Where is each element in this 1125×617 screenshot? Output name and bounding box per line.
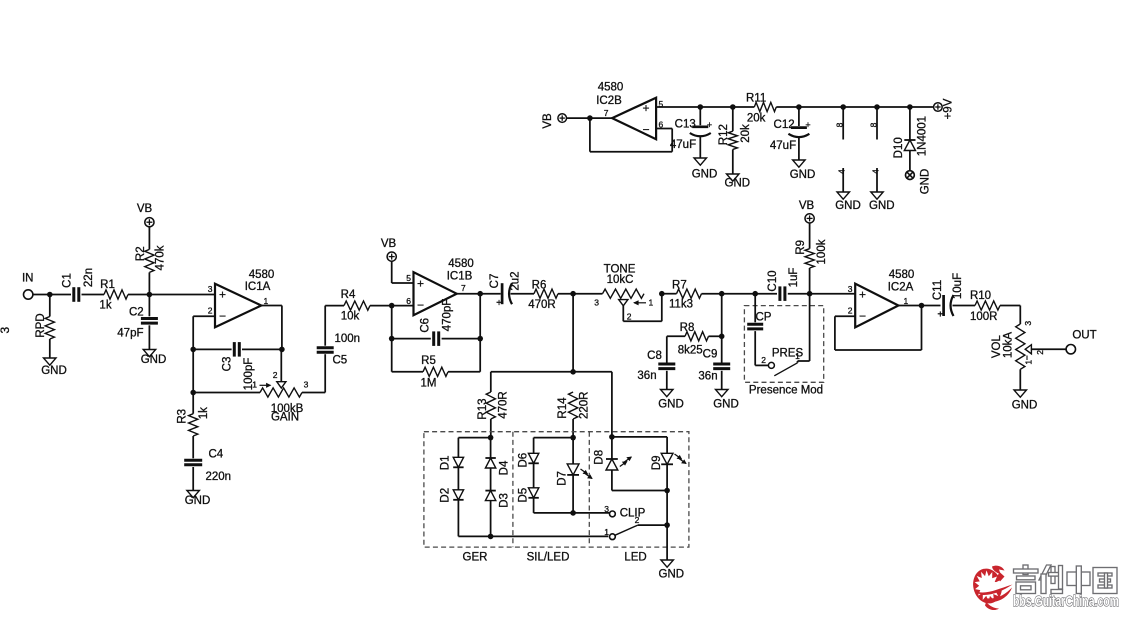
svg-text:47uF: 47uF (670, 139, 696, 151)
svg-text:3: 3 (848, 284, 853, 294)
svg-text:+: + (642, 101, 649, 115)
svg-text:470pF: 470pF (442, 299, 454, 332)
svg-text:8: 8 (835, 122, 845, 127)
svg-text:D4: D4 (499, 460, 511, 475)
svg-text:VB: VB (542, 113, 554, 129)
svg-text:2: 2 (848, 306, 853, 316)
svg-text:2: 2 (635, 515, 640, 525)
svg-text:36n: 36n (637, 370, 656, 382)
svg-text:3: 3 (604, 504, 609, 514)
svg-text:C5: C5 (333, 355, 348, 367)
svg-text:GND: GND (185, 495, 211, 507)
svg-text:GAIN: GAIN (271, 412, 299, 424)
svg-text:+9V: +9V (943, 98, 955, 119)
svg-text:8: 8 (868, 122, 878, 127)
svg-text:3: 3 (0, 327, 12, 334)
svg-text:GND: GND (790, 169, 816, 181)
svg-text:C7: C7 (489, 274, 501, 289)
svg-text:1: 1 (1023, 360, 1033, 365)
svg-text:100k: 100k (816, 239, 828, 264)
svg-text:R13: R13 (477, 398, 489, 419)
svg-text:R9: R9 (795, 240, 807, 255)
svg-text:1: 1 (264, 296, 269, 306)
svg-text:10k: 10k (341, 311, 360, 323)
svg-text:GND: GND (725, 177, 751, 189)
svg-text:2: 2 (1035, 350, 1045, 355)
svg-text:220n: 220n (206, 471, 232, 483)
svg-text:5: 5 (406, 273, 411, 283)
svg-text:C3: C3 (222, 357, 234, 372)
svg-text:1M: 1M (421, 378, 437, 390)
svg-text:R4: R4 (341, 289, 356, 301)
svg-text:3: 3 (208, 284, 213, 294)
svg-text:GND: GND (869, 200, 895, 212)
svg-text:R12: R12 (718, 124, 730, 145)
svg-text:1k: 1k (198, 407, 210, 419)
svg-text:Presence Mod: Presence Mod (749, 385, 823, 397)
svg-text:GND: GND (1012, 399, 1038, 411)
svg-text:47pF: 47pF (117, 328, 143, 340)
svg-text:+: + (937, 310, 943, 321)
svg-text:+: + (707, 120, 712, 130)
svg-text:+: + (496, 298, 502, 309)
svg-text:20k: 20k (747, 112, 766, 124)
svg-text:3: 3 (1023, 321, 1033, 326)
svg-text:R7: R7 (672, 279, 687, 291)
svg-text:4: 4 (871, 169, 881, 174)
svg-text:R6: R6 (532, 279, 547, 291)
svg-text:1: 1 (649, 297, 654, 307)
svg-text:GND: GND (692, 168, 718, 180)
svg-text:1: 1 (604, 527, 609, 537)
svg-text:3: 3 (304, 380, 309, 390)
svg-text:4580: 4580 (448, 258, 474, 270)
svg-text:C12: C12 (774, 119, 795, 131)
svg-text:1: 1 (252, 380, 257, 390)
svg-text:C13: C13 (675, 118, 696, 130)
svg-text:470R: 470R (528, 299, 556, 311)
svg-text:IC1A: IC1A (245, 281, 271, 293)
svg-text:−: − (219, 309, 226, 323)
svg-text:VB: VB (137, 203, 153, 215)
svg-text:GND: GND (920, 169, 932, 195)
svg-text:RPD: RPD (35, 313, 47, 337)
svg-text:C8: C8 (647, 350, 662, 362)
svg-text:−: − (859, 309, 866, 323)
svg-text:CP: CP (756, 312, 772, 324)
svg-text:OUT: OUT (1072, 330, 1096, 342)
svg-text:R11: R11 (746, 92, 766, 104)
svg-text:D10: D10 (893, 137, 905, 158)
svg-text:GND: GND (141, 354, 167, 366)
svg-text:−: − (417, 298, 424, 312)
svg-text:GND: GND (713, 398, 739, 410)
svg-text:R8: R8 (680, 322, 695, 334)
svg-text:D2: D2 (440, 488, 452, 503)
svg-text:470R: 470R (498, 391, 510, 419)
svg-text:VOL: VOL (991, 334, 1003, 358)
svg-text:7: 7 (461, 283, 466, 293)
svg-text:GND: GND (658, 398, 684, 410)
svg-text:SIL/LED: SIL/LED (527, 552, 570, 564)
svg-text:7: 7 (604, 108, 609, 118)
svg-text:IN: IN (22, 273, 34, 285)
svg-text:GND: GND (659, 569, 685, 581)
svg-text:GER: GER (463, 552, 488, 564)
svg-text:C6: C6 (419, 318, 431, 333)
svg-text:+: + (417, 277, 424, 291)
svg-text:D8: D8 (594, 450, 606, 465)
svg-text:C11: C11 (932, 280, 944, 300)
svg-text:4: 4 (837, 169, 847, 174)
svg-text:1k: 1k (99, 300, 111, 312)
svg-text:R1: R1 (100, 279, 115, 291)
svg-text:D7: D7 (556, 471, 568, 486)
svg-text:4580: 4580 (598, 82, 624, 94)
svg-text:R3: R3 (177, 409, 189, 424)
svg-text:C1: C1 (62, 273, 74, 288)
svg-text:1: 1 (795, 351, 800, 361)
svg-text:8k25: 8k25 (678, 345, 703, 357)
svg-text:2u2: 2u2 (510, 271, 522, 290)
svg-text:IC2B: IC2B (596, 95, 622, 107)
svg-text:IC1B: IC1B (447, 271, 473, 283)
svg-text:LED: LED (624, 552, 646, 564)
svg-text:1N4001: 1N4001 (917, 116, 929, 156)
svg-text:−: − (642, 123, 649, 137)
svg-text:D1: D1 (440, 455, 452, 470)
svg-text:22n: 22n (83, 268, 95, 287)
svg-text:C4: C4 (209, 449, 224, 461)
svg-text:470k: 470k (154, 245, 166, 270)
svg-text:220R: 220R (578, 392, 590, 420)
svg-text:10uF: 10uF (952, 273, 964, 299)
svg-text:6: 6 (406, 296, 411, 306)
svg-text:4580: 4580 (249, 269, 275, 281)
svg-text:10kA: 10kA (1002, 332, 1014, 359)
svg-text:20k: 20k (740, 124, 752, 143)
svg-text:C10: C10 (767, 270, 779, 291)
svg-text:IC2A: IC2A (888, 282, 914, 294)
svg-text:CLIP: CLIP (620, 508, 646, 520)
svg-text:47uF: 47uF (770, 140, 796, 152)
svg-text:4580: 4580 (889, 269, 915, 281)
svg-text:VB: VB (381, 238, 397, 250)
svg-text:2: 2 (273, 370, 278, 380)
svg-text:R5: R5 (421, 355, 436, 367)
svg-text:1: 1 (904, 296, 909, 306)
svg-text:D3: D3 (499, 493, 511, 508)
svg-text:GND: GND (835, 200, 861, 212)
svg-text:bbs.GuitarChina.com: bbs.GuitarChina.com (1013, 594, 1119, 610)
svg-text:D5: D5 (518, 488, 530, 503)
svg-text:10kC: 10kC (607, 274, 634, 286)
svg-text:R14: R14 (557, 397, 569, 419)
svg-text:3: 3 (594, 297, 599, 307)
svg-text:11k3: 11k3 (669, 299, 693, 311)
svg-text:100R: 100R (970, 311, 998, 323)
svg-text:D9: D9 (651, 455, 663, 470)
svg-text:VB: VB (799, 200, 815, 212)
svg-text:+: + (219, 288, 226, 302)
svg-text:1uF: 1uF (788, 268, 800, 288)
svg-text:R10: R10 (970, 290, 991, 302)
svg-text:+: + (805, 120, 810, 130)
svg-text:2: 2 (208, 306, 213, 316)
svg-text:36n: 36n (698, 371, 717, 383)
svg-text:C9: C9 (703, 349, 718, 361)
svg-text:100n: 100n (335, 333, 361, 345)
svg-text:2: 2 (761, 355, 766, 365)
svg-text:C2: C2 (129, 307, 144, 319)
svg-text:+: + (859, 288, 866, 302)
svg-text:R2: R2 (135, 246, 147, 261)
svg-text:GND: GND (41, 365, 67, 377)
svg-text:D6: D6 (518, 453, 530, 468)
svg-text:2: 2 (627, 312, 632, 322)
